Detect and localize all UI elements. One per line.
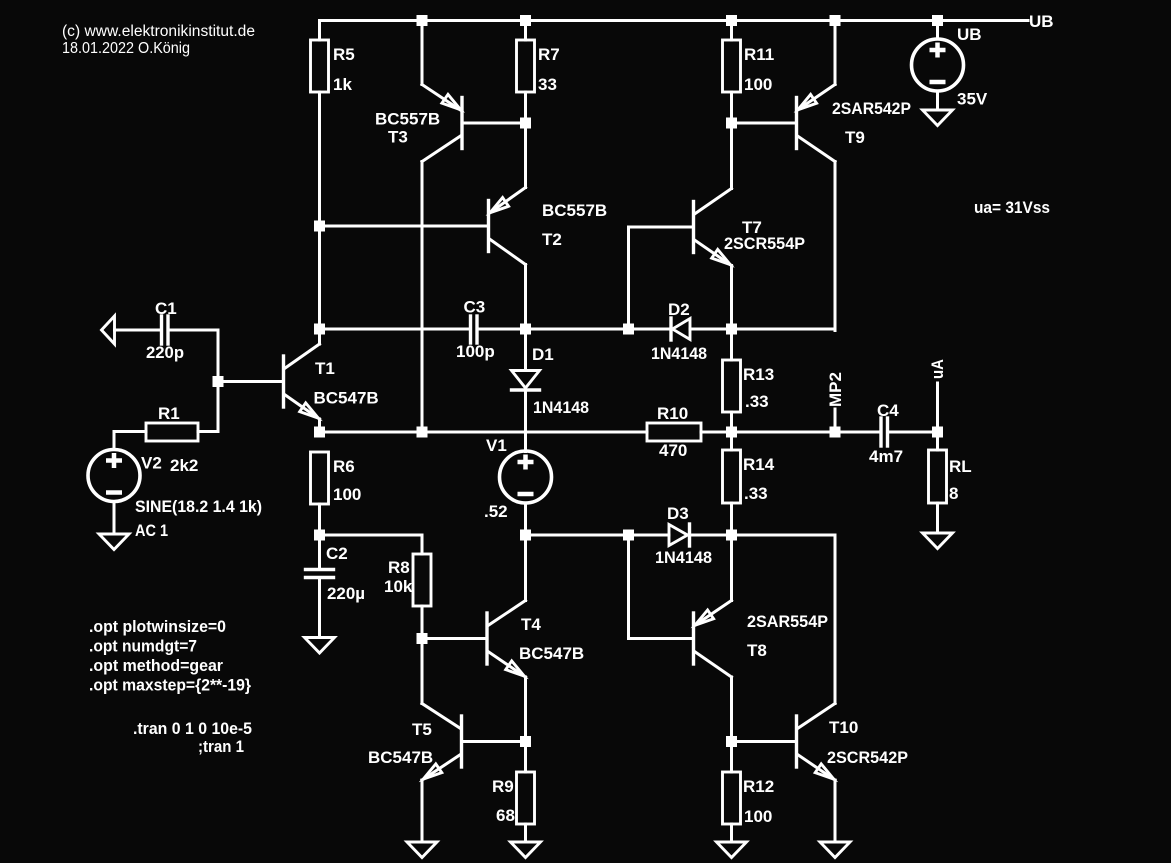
svg-text:8: 8 <box>949 484 958 503</box>
svg-text:68: 68 <box>496 806 515 825</box>
ground below C2 <box>305 638 335 654</box>
svg-text:.52: .52 <box>484 502 508 521</box>
ground below T5 <box>407 842 437 858</box>
wire C3 to D2 <box>479 328 670 331</box>
wire R5 bottom to node rows <box>318 92 321 331</box>
wire T7 base down to D2 row <box>627 227 630 329</box>
junction (218,381.5) <box>213 376 224 387</box>
transistor T3 BC557B (PNP, mirrored, base right) <box>375 21 526 434</box>
svg-text:BC557B: BC557B <box>375 110 440 129</box>
svg-text:UB: UB <box>1029 12 1054 31</box>
svg-text:T5: T5 <box>412 720 432 739</box>
wire row y=535: V1 bottom to D3 <box>526 534 670 537</box>
junction (319.5,329) <box>314 324 325 335</box>
svg-text:.opt maxstep={2**-19}: .opt maxstep={2**-19} <box>89 676 251 695</box>
voltage source V2 SINE <box>88 450 262 541</box>
svg-text:T8: T8 <box>747 641 767 660</box>
junction (835,20.5) <box>830 15 841 26</box>
transistor T4 BC547B (NPN, base left) <box>422 535 584 742</box>
svg-text:.opt numdgt=7: .opt numdgt=7 <box>89 637 197 656</box>
resistor RL <box>929 432 972 533</box>
svg-text:UB: UB <box>957 25 982 44</box>
wire R6/C2 node right to R8 <box>320 535 423 554</box>
svg-text:BC557B: BC557B <box>542 201 607 220</box>
svg-text:2SCR542P: 2SCR542P <box>827 748 908 767</box>
transistor T1 BC547B (NPN, base left) <box>218 329 379 433</box>
transistor T5 BC547B (NPN, mirrored, base right) <box>368 639 526 843</box>
ground below RL <box>923 533 953 549</box>
wire top supply rail UB <box>320 21 1029 41</box>
svg-text:.33: .33 <box>745 392 769 411</box>
capacitor C3 <box>456 298 495 362</box>
svg-text:(c) www.elektronikinstitut.de: (c) www.elektronikinstitut.de <box>62 23 255 40</box>
svg-text:D3: D3 <box>667 504 689 523</box>
capacitor C1 <box>146 299 184 362</box>
svg-text:C3: C3 <box>464 298 486 317</box>
svg-text:100: 100 <box>744 75 772 94</box>
svg-text:220µ: 220µ <box>327 584 365 603</box>
svg-text:C2: C2 <box>326 544 348 563</box>
voltage source UB 35V <box>912 21 988 111</box>
wire C1 right to corner down to R1/base junction <box>170 330 219 432</box>
junction (319.5,535) <box>314 530 325 541</box>
svg-text:.33: .33 <box>744 484 768 503</box>
svg-text:R5: R5 <box>333 45 355 64</box>
wire main bus y=432 left segment <box>320 431 648 434</box>
svg-text:T10: T10 <box>829 718 858 737</box>
svg-text:R10: R10 <box>657 404 688 423</box>
junction (731.5,329) <box>726 324 737 335</box>
capacitor C2 <box>306 544 366 638</box>
junction (422,432) <box>417 427 428 438</box>
resistor R5 <box>311 40 355 94</box>
capacitor C4 <box>869 401 903 466</box>
svg-text:1N4148: 1N4148 <box>655 548 712 567</box>
svg-text:MP2: MP2 <box>826 372 845 407</box>
svg-text:.opt method=gear: .opt method=gear <box>89 656 223 675</box>
svg-text:BC547B: BC547B <box>519 644 584 663</box>
junction (525.5,535) <box>520 530 531 541</box>
svg-text:2k2: 2k2 <box>170 456 198 475</box>
svg-text:ua= 31Vss: ua= 31Vss <box>974 198 1050 217</box>
svg-text:220p: 220p <box>146 343 184 362</box>
junction (525.5,741.5) <box>520 736 531 747</box>
wire node row y=329 left <box>320 328 469 331</box>
junction (731.5,535) <box>726 530 737 541</box>
voltage source V1 .52 <box>484 436 552 535</box>
wire R1 left to V2 <box>114 432 146 450</box>
svg-text:R14: R14 <box>743 455 775 474</box>
svg-text:;tran 1: ;tran 1 <box>198 737 244 756</box>
wire port to C1 <box>115 329 160 332</box>
svg-text:18.01.2022 O.König: 18.01.2022 O.König <box>62 40 190 57</box>
svg-text:BC547B: BC547B <box>314 389 379 408</box>
junction (422,20.5) <box>417 15 428 26</box>
svg-text:10k: 10k <box>384 577 413 596</box>
wire D3 anode node down to T8 base <box>629 535 693 639</box>
ground below T10 <box>820 842 850 858</box>
resistor R13 <box>723 329 775 432</box>
svg-text:R6: R6 <box>333 457 355 476</box>
svg-text:V2: V2 <box>141 454 162 473</box>
svg-text:V1: V1 <box>486 436 507 455</box>
junction (937.5,20.5) <box>932 15 943 26</box>
diode D1 1N4148 (pointing down) <box>512 329 590 452</box>
wire D2 anode to T9 collector corner <box>690 328 835 331</box>
junction (525.5,123) <box>520 118 531 129</box>
junction (835,432) <box>830 427 841 438</box>
node uA stub <box>928 359 947 432</box>
junction (525.5,20.5) <box>520 15 531 26</box>
resistor R11 <box>723 21 775 124</box>
junction (628.5,329) <box>623 324 634 335</box>
transistor T2 BC557B (PNP, base left) <box>320 123 608 329</box>
junction (731.5,432) <box>726 427 737 438</box>
svg-text:2SAR554P: 2SAR554P <box>747 612 828 631</box>
svg-text:D1: D1 <box>532 345 554 364</box>
transistor T8 2SAR554P (PNP, base left) <box>694 535 829 742</box>
input port arrow at C1 <box>102 316 115 344</box>
ground below R9 <box>511 842 541 858</box>
resistor R8 <box>384 554 431 639</box>
svg-text:100p: 100p <box>456 342 495 361</box>
resistor R14 <box>723 432 775 535</box>
junction (731.5,20.5) <box>726 15 737 26</box>
svg-text:C4: C4 <box>877 401 899 420</box>
svg-text:T4: T4 <box>521 615 541 634</box>
svg-text:R8: R8 <box>388 558 410 577</box>
svg-text:100: 100 <box>333 485 361 504</box>
junction (319.5,226) <box>314 221 325 232</box>
resistor R6 <box>311 452 362 567</box>
resistor R9 <box>492 742 535 843</box>
svg-text:470: 470 <box>659 441 687 460</box>
junction (525.5,329) <box>520 324 531 335</box>
svg-text:2SCR554P: 2SCR554P <box>724 234 805 253</box>
svg-text:R13: R13 <box>743 365 774 384</box>
svg-text:R9: R9 <box>492 777 514 796</box>
svg-text:1N4148: 1N4148 <box>533 398 589 417</box>
svg-text:2SAR542P: 2SAR542P <box>832 99 911 118</box>
resistor R7 <box>517 21 560 124</box>
ground below UB source <box>923 110 953 126</box>
svg-text:D2: D2 <box>668 300 690 319</box>
diode D2 1N4148 (pointing left) <box>651 300 707 363</box>
wire C4 to RL node <box>890 431 938 434</box>
junction (628.5,535) <box>623 530 634 541</box>
svg-text:.tran 0 1 0 10e-5: .tran 0 1 0 10e-5 <box>133 719 252 738</box>
svg-text:T3: T3 <box>388 128 408 147</box>
svg-text:T9: T9 <box>845 128 865 147</box>
ground below V2 <box>99 534 129 550</box>
node MP2 stub <box>826 372 845 432</box>
svg-text:R7: R7 <box>538 45 560 64</box>
svg-text:100: 100 <box>744 807 772 826</box>
svg-text:4m7: 4m7 <box>869 447 903 466</box>
svg-text:R12: R12 <box>743 777 774 796</box>
svg-text:1N4148: 1N4148 <box>651 344 707 363</box>
ground below R12 <box>717 842 747 858</box>
svg-text:.opt plotwinsize=0: .opt plotwinsize=0 <box>89 617 226 636</box>
wire D3 to corner down to T10 collector <box>691 535 835 704</box>
svg-text:R11: R11 <box>744 45 774 64</box>
svg-text:SINE(18.2 1.4 1k): SINE(18.2 1.4 1k) <box>135 497 262 516</box>
diode D3 1N4148 (pointing right) <box>655 504 712 567</box>
junction (422,638.5) <box>417 633 428 644</box>
junction (731.5,741.5) <box>726 736 737 747</box>
svg-text:AC 1: AC 1 <box>135 521 168 540</box>
resistor R12 <box>723 742 775 843</box>
svg-text:T2: T2 <box>542 230 562 249</box>
svg-text:R1: R1 <box>158 404 180 423</box>
transistor T10 2SCR542P (NPN, base left) <box>732 704 909 843</box>
svg-text:T1: T1 <box>315 359 335 378</box>
svg-text:C1: C1 <box>155 299 177 318</box>
svg-text:BC547B: BC547B <box>368 748 433 767</box>
junction (731.5,123) <box>726 118 737 129</box>
svg-text:RL: RL <box>949 457 972 476</box>
junction (937.5,432) <box>932 427 943 438</box>
transistor T9 2SAR542P (PNP, base left) <box>732 21 912 331</box>
svg-text:33: 33 <box>538 75 557 94</box>
svg-text:uA: uA <box>928 359 947 379</box>
wire bus R10 right to C4 <box>701 431 879 434</box>
junction (319.5,432) <box>314 427 325 438</box>
resistor R10 <box>647 404 701 460</box>
svg-text:35V: 35V <box>957 90 988 109</box>
transistor T7 2SCR554P (NPN, base left) <box>629 123 806 329</box>
resistor R1 <box>146 404 198 441</box>
svg-text:1k: 1k <box>333 75 352 94</box>
